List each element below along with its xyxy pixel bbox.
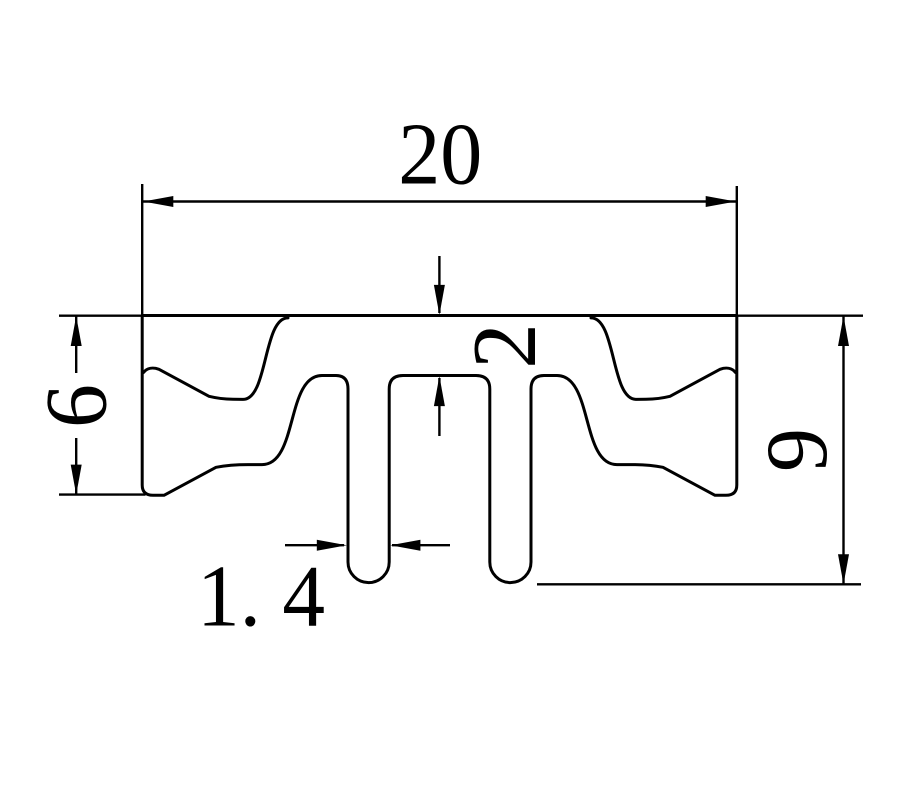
svg-text:1. 4: 1. 4: [197, 549, 325, 646]
svg-text:6: 6: [29, 384, 126, 428]
svg-text:2: 2: [454, 323, 555, 369]
svg-text:20: 20: [398, 107, 482, 204]
svg-text:9: 9: [749, 428, 846, 472]
